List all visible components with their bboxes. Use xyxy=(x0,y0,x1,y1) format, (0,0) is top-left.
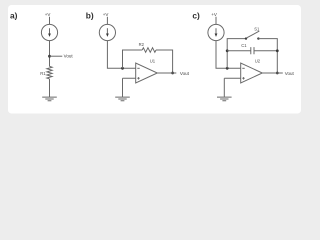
svg-text:c): c) xyxy=(192,10,200,20)
svg-text:+V: +V xyxy=(103,12,109,17)
svg-text:b): b) xyxy=(86,10,94,20)
svg-text:S1: S1 xyxy=(254,27,260,32)
svg-text:Vout: Vout xyxy=(285,71,295,76)
svg-text:R1: R1 xyxy=(40,71,46,76)
svg-text:Vout: Vout xyxy=(180,71,190,76)
svg-text:+V: +V xyxy=(211,12,217,17)
svg-text:U2: U2 xyxy=(255,58,261,63)
svg-text:U1: U1 xyxy=(150,58,156,63)
svg-text:a): a) xyxy=(10,10,18,20)
svg-text:Vout: Vout xyxy=(64,54,74,59)
svg-text:C1: C1 xyxy=(241,43,247,48)
svg-text:+V: +V xyxy=(45,12,51,17)
svg-text:R2: R2 xyxy=(139,42,145,47)
